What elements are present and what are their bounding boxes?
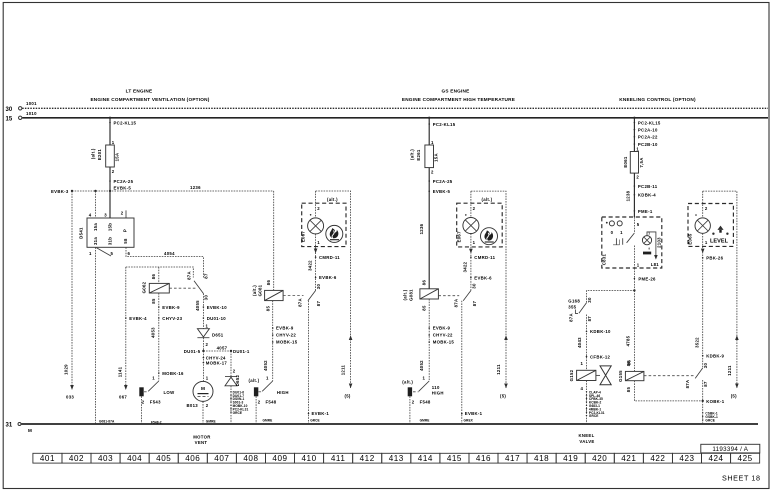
svg-text:1: 1 [266, 376, 269, 381]
relay G062 contact 30/87/87A [187, 271, 209, 300]
svg-text:4: 4 [89, 212, 92, 217]
svg-text:DU01-1: DU01-1 [233, 349, 250, 354]
wire PBK-26 down to G155 contact [694, 233, 724, 368]
svg-text:1: 1 [206, 323, 209, 328]
fuse E201 15A [91, 140, 120, 174]
svg-text:GMRE: GMRE [206, 419, 216, 423]
svg-text:409: 409 [272, 454, 287, 463]
svg-text:2: 2 [317, 206, 320, 211]
svg-text:355: 355 [568, 304, 576, 309]
thermal switch F543 LOW [139, 376, 175, 425]
lamp inside C831 with 2103 tap [642, 231, 661, 267]
svg-text:3422: 3422 [462, 261, 467, 272]
wire G081 85 / 4052 (GS) [419, 299, 454, 381]
svg-text:1029: 1029 [64, 364, 69, 375]
svg-text:1: 1 [620, 230, 623, 235]
svg-text:E067: E067 [457, 231, 462, 243]
svg-text:PC2-KL15: PC2-KL15 [433, 122, 456, 127]
svg-text:KDBK-10: KDBK-10 [590, 329, 611, 334]
svg-text:3522: 3522 [694, 337, 699, 348]
svg-text:KOBK-1: KOBK-1 [706, 399, 725, 404]
svg-text:PC2A-25: PC2A-25 [433, 179, 453, 184]
svg-text:408: 408 [243, 454, 258, 463]
svg-text:EVBK-5: EVBK-5 [433, 189, 451, 194]
wire dashed coil-contact link G062 [169, 287, 196, 289]
svg-text:406: 406 [185, 454, 200, 463]
wire GS main feed from bus 15 [428, 117, 456, 289]
svg-text:CHYV-23: CHYV-23 [162, 316, 182, 321]
svg-text:PME-1: PME-1 [638, 209, 653, 214]
svg-text:86: 86 [266, 280, 271, 286]
svg-text:KDBK-9: KDBK-9 [706, 354, 724, 359]
svg-text:033: 033 [66, 394, 74, 399]
svg-text:(5): (5) [731, 394, 737, 399]
bus 15 / wire 1010 [6, 111, 769, 123]
svg-text:E067: E067 [301, 231, 306, 243]
svg-text:5: 5 [111, 251, 114, 256]
svg-text:GMRE: GMRE [420, 419, 430, 423]
svg-text:411: 411 [331, 454, 346, 463]
svg-text:6: 6 [128, 251, 131, 256]
svg-text:PC2A-10: PC2A-10 [638, 128, 658, 133]
svg-text:1: 1 [423, 376, 426, 381]
svg-text:5: 5 [637, 222, 640, 227]
wire KOBK-1 to ground [702, 380, 725, 424]
diode D652 branch [225, 351, 248, 424]
svg-text:4052: 4052 [263, 360, 268, 371]
svg-text:CMRD-11: CMRD-11 [319, 255, 340, 260]
wire KDBK-10 / 4043 / CFBK-12 [577, 315, 611, 371]
wire D541 pin1 to ground bus [96, 247, 115, 424]
svg-text:PC2A-22: PC2A-22 [638, 135, 658, 140]
svg-text:KDBK-4: KDBK-4 [638, 193, 656, 198]
svg-text:GRCE: GRCE [310, 419, 320, 423]
svg-text:EVBK-9: EVBK-9 [162, 305, 180, 310]
wire D541 pin4 riser [95, 191, 97, 218]
svg-text:D651: D651 [212, 332, 224, 337]
LEVEL indicator icon [710, 226, 729, 245]
svg-text:416: 416 [476, 454, 491, 463]
svg-text:KNEEL: KNEEL [578, 433, 594, 438]
svg-text:86: 86 [422, 280, 427, 286]
thermal switch F548 HIGH (LT) [249, 376, 289, 424]
svg-text:0: 0 [611, 230, 614, 235]
wire LT main feed from bus 15 [109, 117, 137, 218]
svg-text:G155: G155 [618, 370, 623, 382]
svg-text:EVBK-3: EVBK-3 [51, 189, 69, 194]
svg-text:PC2-KL15: PC2-KL15 [114, 120, 137, 125]
svg-text:30: 30 [316, 284, 321, 290]
relay G168 355 contact [568, 297, 592, 322]
svg-text:85: 85 [422, 305, 427, 311]
svg-text:LEVEL: LEVEL [710, 239, 729, 245]
diode D651 [197, 323, 223, 347]
svg-text:MOTOR: MOTOR [193, 435, 211, 440]
svg-text:C831: C831 [602, 253, 607, 265]
svg-text:1: 1 [317, 240, 320, 245]
svg-text:424: 424 [708, 454, 723, 463]
svg-text:G081: G081 [258, 284, 263, 296]
svg-text:2: 2 [121, 211, 124, 216]
svg-text:1: 1 [473, 240, 476, 245]
wire 1211 to sheet 5 (GS) [496, 335, 508, 398]
motor B013 [187, 375, 216, 424]
svg-text:1: 1 [206, 375, 209, 380]
wire G062 30 through D651 to motor [195, 294, 227, 329]
svg-text:31: 31 [6, 423, 13, 429]
svg-text:87: 87 [472, 301, 477, 307]
svg-text:E065: E065 [687, 233, 692, 245]
svg-text:EVBK-4: EVBK-4 [129, 316, 147, 321]
svg-text:G081-87A: G081-87A [99, 419, 115, 423]
bus 30 / wire 1001 [6, 101, 769, 113]
svg-text:2: 2 [258, 400, 261, 405]
svg-text:EVBK-9: EVBK-9 [433, 326, 451, 331]
svg-text:1: 1 [636, 147, 639, 152]
wire 1211 to sheet 5 (kneeling) [727, 335, 739, 398]
svg-text:(5): (5) [500, 394, 506, 399]
svg-text:86: 86 [151, 274, 156, 280]
node EVBK-5 [109, 190, 111, 192]
svg-text:1: 1 [89, 251, 92, 256]
svg-text:2: 2 [112, 169, 115, 174]
svg-text:EVBK-6: EVBK-6 [474, 275, 492, 280]
svg-text:D652: D652 [235, 374, 240, 386]
svg-text:85: 85 [626, 387, 631, 393]
wire lamp pin1 to CMRD-11 [307, 234, 340, 291]
svg-text:30: 30 [204, 295, 209, 301]
switch unit C831 dashed box [602, 217, 662, 268]
relay G081 coil (GS) [403, 280, 439, 311]
svg-text:87A: 87A [453, 299, 458, 308]
svg-text:(alt.): (alt.) [410, 149, 415, 160]
svg-text:HIGH: HIGH [432, 391, 444, 396]
svg-text:GRCE: GRCE [705, 419, 715, 423]
relay G152 coil [569, 369, 596, 381]
indicator lamp E067 (GS) [457, 218, 479, 243]
svg-text:2: 2 [636, 175, 639, 180]
svg-text:4785: 4785 [626, 335, 631, 346]
svg-text:414: 414 [418, 454, 433, 463]
svg-text:2: 2 [206, 403, 209, 408]
svg-text:2: 2 [705, 206, 708, 211]
svg-text:L81: L81 [651, 262, 660, 267]
svg-text:87: 87 [204, 273, 209, 279]
wire EVBK-4 / 1141 down to 067 [117, 267, 147, 399]
svg-text:EVBK-6: EVBK-6 [319, 275, 337, 280]
svg-text:F543: F543 [150, 400, 161, 405]
svg-text:4043: 4043 [577, 337, 582, 348]
svg-text:4055: 4055 [195, 300, 200, 311]
wire lamp pin1 to CMRD-11 (GS) [462, 234, 495, 291]
svg-text:30: 30 [587, 297, 592, 303]
svg-text:F548: F548 [420, 400, 431, 405]
relay G062 coil [142, 267, 170, 304]
svg-text:87: 87 [703, 381, 708, 387]
svg-text:87A: 87A [298, 298, 303, 307]
svg-text:CHYV-22: CHYV-22 [276, 333, 296, 338]
svg-text:2: 2 [473, 206, 476, 211]
svg-text:D541: D541 [79, 227, 84, 239]
svg-text:403: 403 [98, 454, 113, 463]
title block 1193394 / A [701, 444, 760, 453]
svg-text:MOBK-16: MOBK-16 [162, 371, 184, 376]
svg-text:MOBK-15: MOBK-15 [276, 340, 298, 345]
svg-text:GMRE: GMRE [263, 419, 273, 423]
svg-text:F548: F548 [266, 400, 277, 405]
node DU01-5 / wire 4057 [184, 338, 250, 381]
svg-text:110: 110 [432, 385, 440, 390]
heater flame symbol (LT) [326, 225, 343, 242]
relay G081 coil (LT) [252, 191, 283, 311]
svg-text:87: 87 [587, 316, 592, 322]
svg-text:415: 415 [447, 454, 462, 463]
relay G155 coil [618, 361, 703, 401]
svg-text:1236: 1236 [190, 185, 201, 190]
svg-text:G152: G152 [569, 369, 574, 381]
svg-text:DU01-10: DU01-10 [207, 316, 227, 321]
svg-text:407: 407 [214, 454, 229, 463]
svg-text:1: 1 [431, 140, 434, 145]
svg-text:412: 412 [360, 454, 375, 463]
switch D541 [79, 210, 135, 256]
svg-text:GREX: GREX [464, 419, 474, 423]
kneel valve symbol [596, 366, 611, 385]
svg-text:402: 402 [69, 454, 84, 463]
svg-text:(alt.): (alt.) [252, 285, 257, 296]
svg-text:405: 405 [156, 454, 171, 463]
svg-text:PC2B-11: PC2B-11 [638, 184, 658, 189]
svg-text:(alt.): (alt.) [402, 380, 413, 385]
svg-text:GRCE: GRCE [233, 411, 243, 415]
svg-text:1010: 1010 [26, 111, 37, 116]
lamp unit E065 LEVEL dashed box [688, 191, 737, 388]
svg-text:(alt.): (alt.) [91, 148, 96, 159]
svg-text:1211: 1211 [727, 365, 732, 376]
svg-text:GS ENGINE: GS ENGINE [441, 89, 469, 94]
node PC2A-25 (GS) [428, 180, 430, 182]
svg-text:30: 30 [471, 283, 476, 289]
svg-text:KNEELING CONTROL (OPTION): KNEELING CONTROL (OPTION) [619, 97, 696, 102]
svg-text:2: 2 [233, 369, 236, 374]
relay G155 contact [685, 363, 708, 389]
svg-text:GRCE: GRCE [589, 414, 599, 418]
wire kneeling main feed from bus 15 [633, 117, 661, 217]
node PC2B-11 [634, 185, 636, 187]
wire G152 pin4 net stack to ground [581, 381, 605, 425]
svg-text:G081: G081 [408, 289, 413, 301]
bus 31 / M ground bus [6, 423, 759, 433]
svg-text:1: 1 [112, 140, 115, 145]
svg-text:G062: G062 [142, 281, 147, 293]
svg-text:ENGINE COMPARTMENT HIGH TEMPER: ENGINE COMPARTMENT HIGH TEMPERATURE [402, 97, 515, 102]
svg-text:1: 1 [705, 240, 708, 245]
relay G081 contact (LT) [283, 284, 321, 307]
wire frame net to G062 coil / 87A [126, 267, 194, 278]
svg-text:SHEET 18: SHEET 18 [722, 473, 761, 482]
wire 4054 from D541 pin6 [126, 247, 203, 277]
svg-text:4054: 4054 [164, 251, 175, 256]
svg-text:MOBK-15: MOBK-15 [433, 340, 455, 345]
svg-text:425: 425 [738, 454, 753, 463]
svg-text:(alt.): (alt.) [327, 197, 338, 202]
svg-text:4057: 4057 [217, 345, 228, 350]
svg-text:CHYV-22: CHYV-22 [433, 333, 453, 338]
svg-text:G168: G168 [568, 298, 580, 303]
lamp unit E067 (LT) dashed box [302, 191, 351, 388]
svg-text:420: 420 [592, 454, 607, 463]
svg-text:7,5A: 7,5A [639, 157, 644, 167]
node PC2A-25 [109, 180, 111, 182]
svg-text:2: 2 [206, 342, 209, 347]
svg-text:1211: 1211 [341, 364, 346, 375]
svg-text:EVBK-10: EVBK-10 [207, 305, 228, 310]
svg-text:9: 9 [649, 247, 651, 251]
svg-text:M: M [201, 386, 205, 391]
svg-text:PC2B-10: PC2B-10 [638, 142, 658, 147]
heater flame symbol (GS) [481, 228, 498, 245]
fuse E261 15A [410, 140, 439, 175]
svg-text:404: 404 [127, 454, 142, 463]
svg-text:CFBK-12: CFBK-12 [590, 354, 611, 359]
svg-text:HIGH: HIGH [277, 390, 289, 395]
svg-text:EVBK-5: EVBK-5 [114, 185, 132, 190]
svg-text:3422: 3422 [307, 260, 312, 271]
svg-text:(alt.): (alt.) [249, 378, 260, 383]
svg-text:86: 86 [626, 361, 631, 367]
relay G081 contact (GS) [438, 283, 476, 307]
svg-text:15A: 15A [434, 153, 439, 162]
indicator lamp E067 (LT) [301, 218, 324, 242]
svg-text:F548-2: F548-2 [151, 420, 162, 424]
svg-text:ENGINE COMPARTMENT VENTILATION: ENGINE COMPARTMENT VENTILATION (OPTION) [90, 97, 209, 102]
svg-text:LT ENGINE: LT ENGINE [126, 89, 153, 94]
svg-text:067: 067 [119, 394, 127, 399]
svg-text:423: 423 [679, 454, 694, 463]
svg-text:2: 2 [412, 400, 415, 405]
svg-text:87A: 87A [187, 271, 192, 280]
svg-text:2103: 2103 [656, 237, 661, 248]
svg-text:31b: 31b [108, 237, 113, 245]
svg-text:(5): (5) [345, 394, 351, 399]
wire EVBK-1 to ground (LT) [308, 301, 330, 424]
wire G081 85 / 4052 down to F548 [263, 301, 298, 381]
svg-text:MOBK-17: MOBK-17 [206, 360, 228, 365]
svg-text:15: 15 [6, 116, 13, 122]
svg-text:P: P [123, 229, 128, 232]
svg-text:30: 30 [6, 107, 13, 113]
svg-text:4: 4 [581, 386, 584, 391]
svg-text:3: 3 [104, 212, 107, 217]
zone number band 401-425 [33, 453, 760, 463]
svg-text:1211: 1211 [496, 364, 501, 375]
wire 1029 down to 033 [64, 191, 75, 399]
svg-text:1193394 / A: 1193394 / A [712, 446, 748, 453]
indicator lamp E065 [687, 218, 710, 245]
svg-text:2: 2 [431, 169, 434, 174]
svg-text:401: 401 [40, 454, 55, 463]
svg-text:VALVE: VALVE [579, 439, 594, 444]
svg-text:DU01-5: DU01-5 [184, 349, 201, 354]
svg-text:58: 58 [123, 238, 128, 244]
fuse E061 7,5A [623, 147, 644, 180]
node EVBK-5 (GS) [428, 190, 430, 192]
svg-text:B013: B013 [187, 403, 199, 408]
node PME-1 [634, 210, 636, 212]
svg-text:30: 30 [703, 363, 708, 369]
svg-text:1238: 1238 [625, 190, 630, 201]
svg-text:418: 418 [534, 454, 549, 463]
svg-text:87A: 87A [685, 380, 690, 389]
svg-text:1141: 1141 [117, 366, 122, 377]
wire 1211 to sheet 5 (LT) [341, 335, 353, 398]
svg-text:87: 87 [316, 301, 321, 307]
svg-text:2: 2 [142, 400, 145, 405]
node PME-26 [634, 268, 656, 291]
svg-text:VENT: VENT [195, 440, 208, 445]
svg-text:EVBK-9: EVBK-9 [276, 326, 294, 331]
svg-text:1001: 1001 [26, 101, 37, 106]
svg-text:1: 1 [637, 262, 640, 267]
svg-text:EVBK-1: EVBK-1 [312, 411, 330, 416]
wire G062 85 to F543 [151, 293, 184, 381]
svg-text:31a: 31a [93, 237, 98, 245]
svg-text:E201: E201 [97, 149, 102, 161]
svg-text:EVBK-1: EVBK-1 [465, 411, 483, 416]
wire split to G168 contact [587, 289, 636, 371]
svg-text:1236: 1236 [419, 223, 424, 234]
svg-text:1: 1 [152, 376, 155, 381]
svg-text:85: 85 [151, 298, 156, 304]
svg-text:15b: 15b [108, 223, 113, 231]
svg-text:421: 421 [621, 454, 636, 463]
svg-text:PME-26: PME-26 [638, 276, 656, 281]
svg-text:4052: 4052 [419, 360, 424, 371]
svg-text:410: 410 [301, 454, 316, 463]
wire EVBK-1 to ground (GS) [461, 301, 483, 424]
svg-text:413: 413 [389, 454, 404, 463]
svg-text:(alt.): (alt.) [403, 289, 408, 300]
svg-text:PC2A-25: PC2A-25 [114, 179, 134, 184]
svg-text:85: 85 [265, 306, 270, 312]
svg-text:(alt.): (alt.) [482, 197, 493, 202]
svg-text:4053: 4053 [151, 327, 156, 338]
svg-text:E261: E261 [416, 149, 421, 161]
thermal switch F548 110 HIGH (GS) [402, 376, 443, 424]
svg-text:87A: 87A [568, 313, 573, 322]
svg-text:15A: 15A [114, 153, 119, 162]
svg-text:LOW: LOW [164, 390, 176, 395]
node KDBK-4 / wire 1238 [634, 194, 636, 196]
svg-text:419: 419 [563, 454, 578, 463]
svg-text:422: 422 [650, 454, 665, 463]
lamp unit E067 (GS) dashed box [457, 191, 506, 388]
svg-text:M: M [28, 428, 32, 433]
svg-text:CMRD-11: CMRD-11 [474, 255, 495, 260]
svg-text:15a: 15a [93, 223, 98, 231]
svg-text:E061: E061 [623, 156, 628, 168]
svg-text:PBK-26: PBK-26 [706, 256, 723, 261]
svg-text:1: 1 [581, 361, 584, 366]
svg-text:417: 417 [505, 454, 520, 463]
wire EVBK-3 / 1236 horizontal run [51, 185, 274, 194]
svg-text:PC2-KL15: PC2-KL15 [638, 120, 661, 125]
